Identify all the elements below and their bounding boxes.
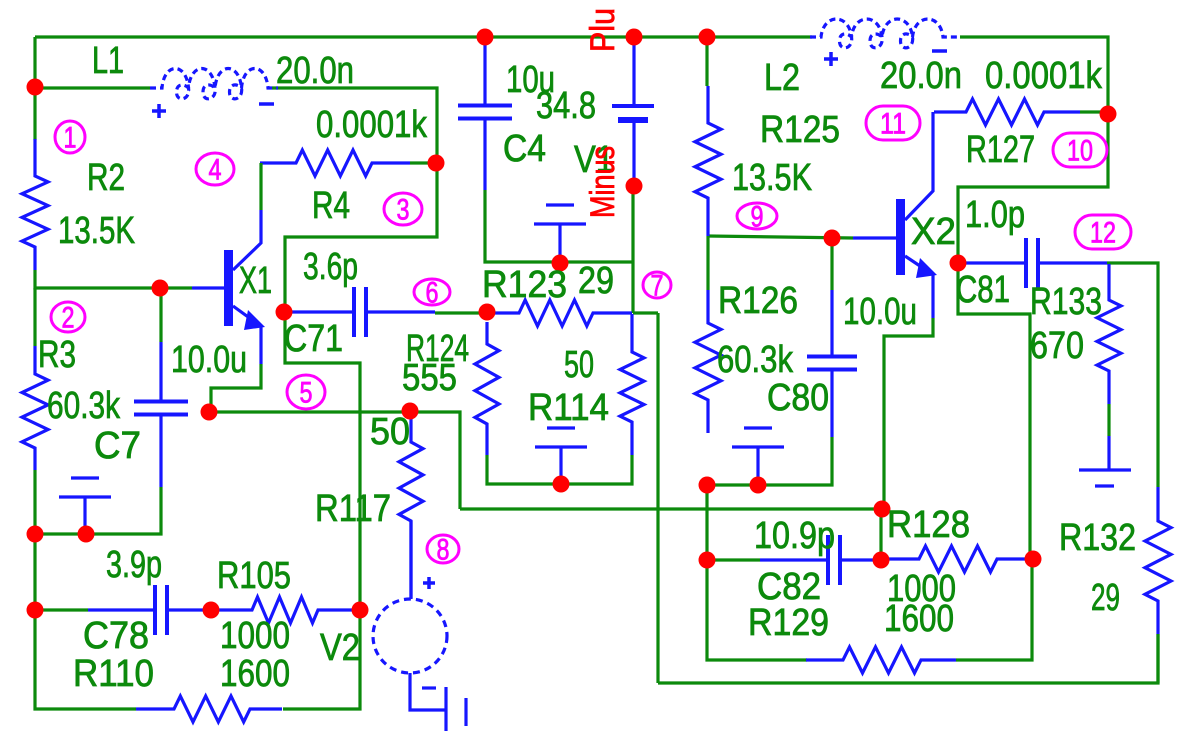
wire bottom R110 right (283, 610, 360, 709)
svg-text:11: 11 (880, 108, 906, 141)
wire C71 right to node6 (435, 311, 487, 314)
resistor R132 29 (1145, 487, 1171, 634)
svg-text:50: 50 (370, 411, 410, 453)
ground under R126 C80 (732, 428, 784, 484)
svg-text:29: 29 (1091, 577, 1120, 619)
wire L1 left (35, 86, 150, 89)
svg-text:R123: R123 (482, 264, 567, 306)
svg-text:60.3k: 60.3k (717, 339, 794, 381)
svg-text:2: 2 (62, 302, 75, 335)
capacitor C4 10u (458, 106, 512, 119)
node dot V1 bottom (626, 178, 643, 195)
resistor R105 1000 1600 (213, 597, 358, 623)
resistor R125 13.5K (695, 86, 721, 236)
wire R133 mid lead (1107, 404, 1110, 436)
svg-text:C78: C78 (83, 615, 149, 657)
resistor R133 670 (1097, 264, 1121, 404)
wire C82 blue left (760, 558, 828, 561)
svg-text:20.0n: 20.0n (880, 55, 962, 97)
node dot C82 left (699, 552, 716, 569)
svg-text:1000: 1000 (220, 615, 290, 657)
svg-text:X1: X1 (239, 260, 272, 302)
svg-text:6: 6 (426, 277, 439, 310)
wire R123 junction right (633, 311, 658, 314)
wire C81 right lead (1038, 261, 1107, 264)
svg-text:9: 9 (751, 201, 764, 234)
ground under R133 (1079, 436, 1131, 486)
wire node9 horizontal (708, 236, 853, 238)
wire X1 emitter path (211, 364, 261, 412)
svg-text:C7: C7 (94, 425, 141, 467)
wire X1 collector green (259, 163, 262, 210)
node dot C78 right (203, 602, 220, 619)
V2 bottom lead and ground (410, 673, 466, 731)
wire left rail top (33, 37, 36, 88)
wire bottom rail right (658, 634, 1158, 683)
node dot C80 ground (750, 477, 767, 494)
wire C82 left vertical (705, 485, 708, 560)
svg-text:5: 5 (300, 377, 313, 410)
svg-text:L2: L2 (764, 57, 800, 99)
wire C71 left lead (292, 310, 354, 313)
wire R125 top lead (705, 37, 708, 86)
node dot R123 left (479, 304, 496, 321)
wire node5 horizontal (209, 412, 460, 509)
svg-text:13.5K: 13.5K (732, 157, 812, 199)
svg-text:670: 670 (1030, 325, 1084, 367)
svg-text:R110: R110 (73, 653, 154, 695)
resistor R124 555 (475, 322, 499, 455)
capacitor C71 3.6p (354, 287, 366, 337)
wire left rail bottom (33, 534, 36, 610)
node dot node5 left (201, 404, 218, 421)
wire C7 bottom lead (35, 487, 161, 534)
wire long vertical mid (656, 313, 659, 683)
wire top rail right (634, 35, 707, 38)
L2 minus polarity (932, 49, 947, 53)
wire R4 right green (410, 161, 436, 164)
resistor R117 50 (399, 419, 423, 598)
svg-text:555: 555 (402, 357, 457, 399)
node dot C82 right (873, 552, 890, 569)
node dot C71 left (276, 304, 293, 321)
node 2 (51, 302, 85, 335)
wire top rail center (485, 35, 634, 38)
svg-text:1600: 1600 (220, 653, 290, 695)
resistor R110 (136, 696, 282, 722)
node dot X1 base (152, 280, 169, 297)
V2 top lead (409, 521, 412, 599)
svg-text:8: 8 (437, 534, 450, 567)
svg-text:R133: R133 (1030, 281, 1102, 323)
node dot L2-R125 (699, 29, 716, 46)
node 12 (1075, 215, 1131, 250)
wire long horizontal mid (460, 507, 881, 510)
wire C81 left lead (962, 261, 1026, 264)
wire R132 bottom lead (1156, 634, 1159, 683)
node 5 (287, 375, 325, 410)
wire R127 right down to C81 box (958, 114, 1108, 263)
node dot R114 ground (553, 476, 570, 493)
svg-text:R117: R117 (315, 488, 391, 530)
node 1 (55, 121, 85, 155)
wire R114 box bottom (487, 455, 632, 484)
resistor R127 0.0001k (934, 99, 1080, 125)
battery V1 34.8 (612, 45, 654, 186)
svg-text:3: 3 (397, 194, 410, 227)
V2 plus polarity (423, 577, 435, 589)
ground under C7 (59, 478, 111, 533)
wire C7 blue top (159, 342, 162, 402)
svg-text:10.0u: 10.0u (843, 291, 917, 333)
svg-text:0.0001k: 0.0001k (985, 55, 1103, 97)
svg-text:X2: X2 (911, 211, 956, 253)
wire C71 node down to C78 node (285, 313, 360, 610)
transistor X2 (853, 112, 937, 318)
node dot R3 bottom (27, 526, 44, 543)
wire left lower rail (35, 610, 136, 709)
svg-text:L1: L1 (92, 40, 124, 82)
svg-text:3.9p: 3.9p (106, 544, 162, 586)
capacitor C78 3.9p (155, 585, 167, 635)
inductor L2 (810, 19, 960, 48)
svg-text:R105: R105 (217, 555, 291, 597)
resistor R4 0.0001k (260, 150, 410, 176)
resistor R126 60.3k (695, 290, 721, 433)
wire top rail (35, 35, 485, 38)
node dot R4 right (428, 155, 445, 172)
svg-text:C4: C4 (503, 128, 546, 170)
voltage source V2 circle (373, 599, 447, 673)
node dot R105 right (352, 602, 369, 619)
svg-text:Plu: Plu (584, 8, 622, 52)
wire R126 bottom wire (707, 483, 758, 486)
wire C78 blue right (167, 608, 211, 611)
node dot C7 ground (78, 526, 95, 543)
svg-text:1: 1 (64, 122, 77, 155)
node 8 (427, 534, 459, 567)
capacitor C82 10.9p (828, 535, 840, 585)
svg-text:R2: R2 (87, 157, 125, 199)
L1 plus polarity (152, 104, 166, 118)
svg-text:R128: R128 (887, 504, 970, 546)
wire C82 left lead (707, 558, 760, 561)
wire C7 blue bottom (159, 415, 162, 487)
svg-text:12: 12 (1090, 217, 1116, 250)
svg-text:13.5K: 13.5K (58, 210, 135, 252)
resistor R129 (806, 647, 956, 673)
wire C4 bottom stem (485, 190, 633, 262)
node 9 (737, 201, 777, 234)
svg-text:4: 4 (209, 154, 222, 187)
wire V1 minus lead (631, 186, 634, 313)
svg-text:10: 10 (1067, 135, 1093, 168)
svg-text:60.3k: 60.3k (47, 385, 121, 427)
svg-text:R127: R127 (966, 129, 1035, 171)
node 11 (866, 106, 920, 141)
wire R2 top lead (33, 88, 36, 140)
node dot C81 left (950, 255, 967, 272)
node 4 (196, 153, 234, 187)
node dot X2 base (824, 230, 841, 247)
wire C78 blue left (88, 608, 155, 611)
svg-text:R129: R129 (748, 602, 829, 644)
node dot R117 top (402, 403, 419, 420)
wire C80 stem top (830, 238, 833, 290)
wire R129 box right (956, 558, 1032, 660)
wire R3 bottom lead (33, 470, 36, 534)
wire X2 emitter to C82 (879, 509, 882, 560)
svg-text:Minus: Minus (584, 146, 622, 218)
resistor R2 13.5K (22, 139, 48, 270)
capacitor C80 10.0u (807, 357, 857, 370)
wire C81 node down to R128 (958, 263, 1030, 558)
node dot R127 right (1100, 106, 1117, 123)
node dot C78 left (27, 602, 44, 619)
svg-text:10.0u: 10.0u (171, 339, 247, 381)
svg-text:10.9p: 10.9p (754, 515, 835, 557)
svg-text:C71: C71 (284, 318, 343, 360)
svg-text:R126: R126 (718, 280, 798, 322)
wire X2 emitter path (884, 318, 933, 509)
wire C78 left lead (35, 608, 88, 611)
node dot V1 top (626, 29, 643, 46)
svg-text:50: 50 (564, 344, 594, 386)
wire C80 bottom lead (758, 437, 832, 485)
svg-text:R4: R4 (312, 185, 350, 227)
resistor R123 29 (489, 300, 632, 326)
node 6 (414, 277, 450, 310)
svg-text:R132: R132 (1059, 517, 1136, 559)
wire L1 right to R4 box corner (272, 88, 437, 163)
svg-text:R125: R125 (760, 109, 840, 151)
wire C81 right corner (1107, 263, 1158, 487)
capacitor C81 1.0p (1026, 238, 1038, 288)
node dot V1 ground (552, 255, 569, 272)
svg-text:1.0p: 1.0p (965, 194, 1025, 236)
svg-text:C81: C81 (956, 269, 1010, 311)
resistor R128 1000 1600 (886, 546, 1030, 572)
node 3 (384, 193, 422, 227)
svg-text:7: 7 (651, 270, 664, 303)
wire R129 box left (707, 560, 807, 660)
wire R127 right green (1080, 110, 1108, 113)
resistor R3 60.3k (22, 346, 48, 470)
svg-text:R114: R114 (528, 387, 609, 429)
svg-text:29: 29 (578, 260, 614, 302)
L2 plus polarity (824, 52, 838, 66)
node 7 (643, 270, 671, 303)
ground near V1 (534, 205, 586, 262)
wire R125 bottom to R126 (706, 236, 709, 290)
node dot L1-R2 (27, 79, 44, 96)
wire C7 top lead (159, 288, 162, 342)
node dot R126 bottom (699, 477, 716, 494)
capacitor C7 10.0u (134, 402, 188, 415)
ground under R114 (535, 428, 587, 483)
wire C80 blue top (830, 290, 833, 357)
svg-text:0.0001k: 0.0001k (316, 104, 428, 146)
node 10 (1053, 133, 1107, 168)
wire C80 blue bottom (830, 370, 833, 437)
wire C4 lower stem (483, 119, 486, 190)
L1 minus polarity (259, 102, 274, 106)
svg-text:1600: 1600 (884, 598, 954, 640)
svg-text:34.8: 34.8 (536, 85, 596, 127)
wire node2 horizontal (35, 270, 192, 288)
resistor R114 50 (620, 314, 644, 455)
transistor X1 (192, 210, 265, 364)
wire C71 right lead (366, 310, 435, 313)
wire C4 top stem (483, 45, 486, 106)
svg-text:R3: R3 (38, 334, 76, 376)
wire top right rail (960, 37, 1108, 114)
wire R3 top lead (33, 288, 36, 346)
svg-text:V2: V2 (320, 627, 360, 669)
wire node3 to C71 box (285, 163, 437, 313)
svg-text:20.0n: 20.0n (276, 50, 354, 92)
wire L2 left (707, 35, 812, 38)
svg-text:3.6p: 3.6p (303, 246, 358, 288)
wire C82 blue right (840, 558, 881, 561)
node dot X2 emitter (874, 501, 891, 518)
inductor L1 (150, 69, 278, 99)
svg-text:C80: C80 (767, 377, 829, 419)
node dot C4 top (477, 29, 494, 46)
node dot R128 right (1025, 551, 1042, 568)
